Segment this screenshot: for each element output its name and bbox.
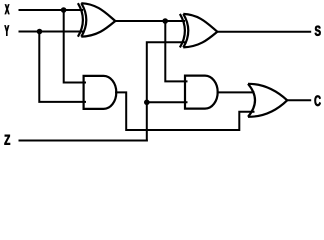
xor gate XOR2 (inputs XOR1 out, Z) — [180, 14, 217, 48]
wire AND2 output to OR upper input — [218, 91, 254, 93]
or gate OR1 (carry output) — [248, 84, 287, 117]
and gate AND2 (inputs XOR1 out, Z) — [185, 76, 218, 109]
wire Y branch down to AND1 lower input — [39, 32, 85, 102]
wire input X horizontal — [20, 9, 83, 11]
wire XOR1 output to XOR2 upper input — [115, 20, 184, 22]
wire X branch down to AND1 upper input — [64, 10, 85, 83]
junction node on Y line — [37, 29, 43, 35]
output label S — [315, 26, 321, 36]
wire Z vertical riser to XOR2 lower input — [147, 42, 184, 140]
wire branch from XOR1 output down to AND2 upper input — [165, 21, 186, 81]
wire AND1 output routed to OR lower input — [116, 92, 254, 130]
input label X — [5, 5, 9, 15]
output label C — [315, 95, 321, 106]
wire OR output to C — [287, 99, 310, 101]
junction node on XOR1 output — [162, 18, 168, 24]
input label Z — [5, 135, 11, 145]
junction node on Z riser — [144, 100, 150, 106]
xor gate XOR1 (inputs X,Y) — [78, 3, 115, 37]
wire input Z horizontal — [20, 140, 147, 142]
wire XOR2 output to S — [217, 31, 310, 33]
wire branch from Z riser to AND2 lower input — [147, 101, 187, 103]
wire input Y horizontal — [20, 31, 83, 33]
junction node on X line — [61, 7, 67, 13]
and gate AND1 (inputs X,Y) — [84, 76, 117, 109]
input label Y — [5, 26, 9, 36]
